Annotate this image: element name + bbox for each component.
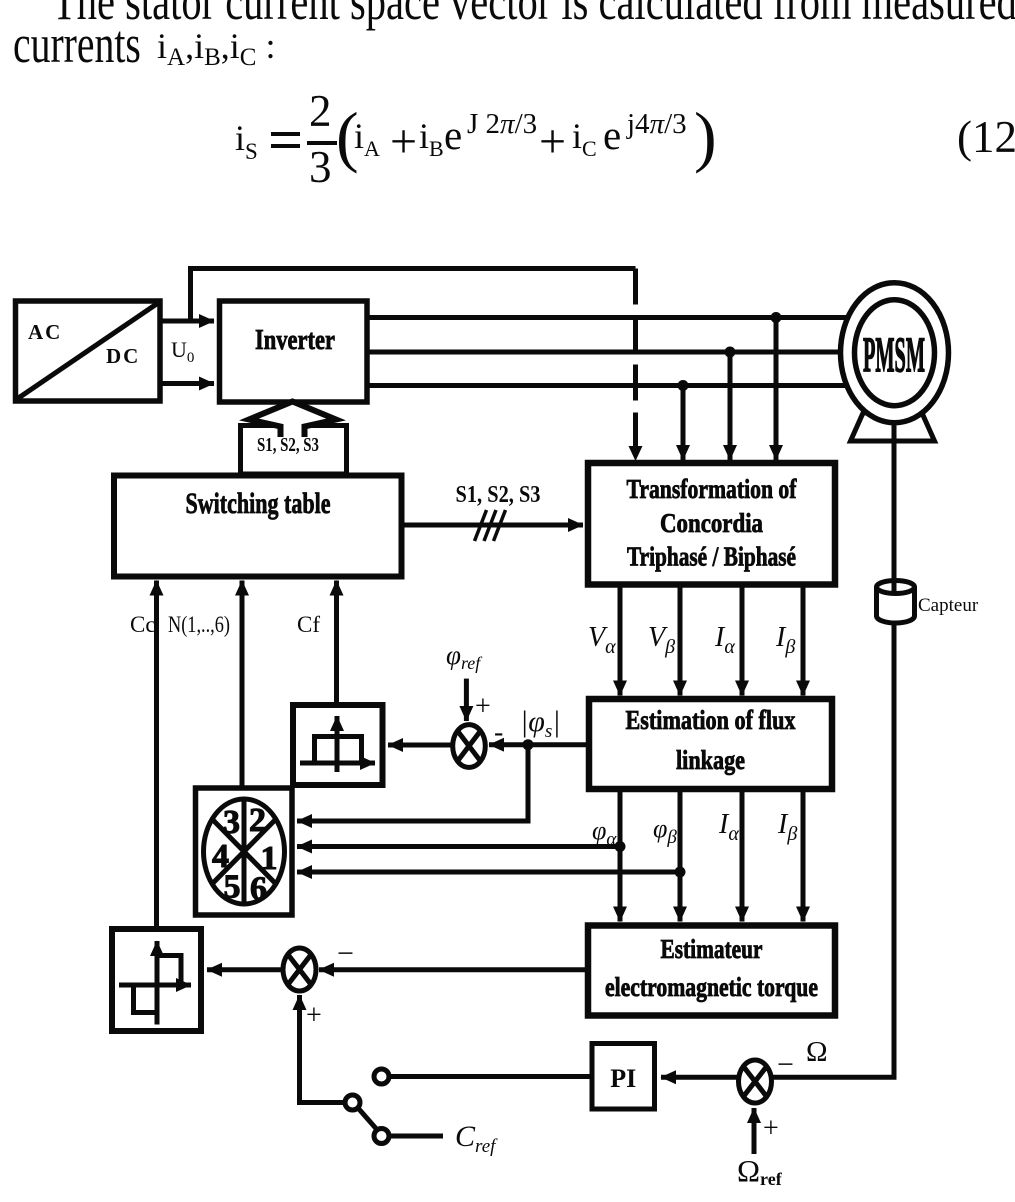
junction dot phase A	[771, 312, 782, 323]
term iB e^J2pi/3	[419, 118, 444, 160]
wire flux junction to flux hysteresis	[388, 743, 453, 748]
svg-text:φref: φref	[446, 640, 483, 673]
flux hysteresis h axis	[300, 761, 375, 766]
svg-text:Cf: Cf	[297, 612, 320, 637]
block sector selector	[196, 788, 293, 915]
motor outer ellipse	[841, 283, 949, 423]
wire speed junction to PI	[661, 1075, 739, 1080]
svg-text:|φs|: |φs|	[520, 705, 561, 742]
term iA	[354, 118, 380, 160]
svg-text:−: −	[777, 1048, 794, 1081]
drop wire phibeta	[678, 789, 683, 922]
svg-text:Triphasé / Biphasé: Triphasé / Biphasé	[627, 542, 796, 572]
wire PI output to switch	[390, 1074, 593, 1079]
svg-text:PMSM: PMSM	[863, 326, 925, 382]
svg-text:Ωref: Ωref	[737, 1153, 783, 1189]
drop wire Ibeta2	[801, 789, 806, 922]
svg-text:PI: PI	[610, 1064, 636, 1093]
wire Omega ref up into speed junction	[752, 1108, 757, 1154]
sector selector diagonal 2	[212, 819, 276, 884]
svg-text:Iα: Iα	[718, 809, 739, 845]
wire phiref down into flux junction	[464, 679, 469, 721]
wire flux branch to sector selector	[297, 745, 528, 821]
svg-text:Estimateur: Estimateur	[661, 934, 763, 964]
equation term iS	[235, 120, 258, 163]
motor base	[851, 413, 935, 441]
svg-text:φα: φα	[592, 816, 617, 850]
fraction 2/3 numerator	[309, 89, 332, 134]
drop wire Ialpha	[740, 585, 745, 696]
flux hysteresis loop	[315, 737, 362, 764]
inline math iA iB iC	[157, 28, 276, 70]
fraction bar	[307, 141, 337, 145]
motor inner ellipse	[855, 300, 935, 406]
block torque hysteresis comparator	[112, 929, 201, 1031]
block Estimateur torque	[588, 926, 835, 1016]
sector selector ellipse	[204, 799, 285, 904]
paragraph line 1 (cut off at top)	[52, 0, 1015, 28]
svg-text:Vβ: Vβ	[648, 622, 675, 658]
big left paren	[336, 102, 359, 170]
torque hysteresis v axis	[155, 941, 160, 1025]
wire Cc up to switching table	[154, 581, 159, 930]
wire summing junction to torque hysteresis	[207, 967, 283, 972]
sector selector diagonal 1	[212, 819, 276, 884]
capteur cylinder body	[877, 587, 915, 623]
block Inverter	[220, 301, 368, 402]
speed summing junction	[739, 1060, 772, 1103]
drop wire Ic to Concordia	[681, 386, 686, 461]
drop wire Ialpha2	[740, 789, 745, 922]
svg-text:6: 6	[250, 871, 267, 908]
svg-text:+: +	[475, 691, 491, 722]
drop wire Ibeta	[801, 585, 806, 696]
slash marks ///	[475, 510, 487, 541]
svg-text:Estimation of flux: Estimation of flux	[626, 705, 796, 735]
big right paren	[694, 102, 717, 170]
plus	[539, 118, 566, 166]
wire torque to summing junction	[319, 967, 588, 972]
wire U0 bottom	[160, 381, 214, 386]
wire up into torque junction from switch	[300, 995, 345, 1103]
shaft stub through capteur top	[892, 578, 897, 591]
svg-text:S1, S2, S3: S1, S2, S3	[257, 434, 319, 456]
wire phase A	[367, 315, 851, 320]
block-arrow S1,S2,S3 into inverter : arrow	[249, 402, 336, 438]
torque hysteresis h axis	[119, 983, 191, 988]
svg-text:electromagnetic torque: electromagnetic torque	[605, 972, 818, 1002]
drop wire Valpha	[618, 585, 623, 696]
svg-text:Vα: Vα	[588, 622, 616, 658]
svg-text:Iα: Iα	[714, 622, 735, 658]
term iC e^j4pi/3	[572, 118, 597, 160]
torque summing junction	[283, 948, 316, 991]
switch upper contact	[374, 1069, 389, 1084]
svg-text:Switching table: Switching table	[186, 487, 331, 520]
wire N up to switching table	[240, 581, 245, 789]
block-arrow S1,S2,S3 into inverter : box	[241, 426, 347, 475]
drop wire Ia to Concordia	[774, 318, 779, 461]
svg-text:N(1,..,6): N(1,..,6)	[168, 612, 230, 637]
equation number (12	[957, 115, 1015, 160]
svg-text:Inverter: Inverter	[255, 325, 335, 356]
junction dot phase C	[678, 380, 689, 391]
svg-text:linkage: linkage	[676, 745, 745, 775]
junction dot phibeta	[675, 867, 686, 878]
block Estimation of flux linkage	[589, 699, 832, 789]
wire phibeta to sector selector	[297, 870, 680, 875]
svg-text:+: +	[306, 1000, 322, 1031]
svg-text:Concordia: Concordia	[660, 508, 763, 538]
paragraph line 2	[13, 17, 141, 71]
drop wire Ib to Concordia	[728, 352, 733, 460]
wire phase B	[367, 350, 845, 355]
drop wire phialpha	[618, 789, 623, 922]
block flux hysteresis comparator	[293, 705, 383, 785]
svg-text:5: 5	[224, 869, 241, 906]
svg-text:+: +	[763, 1113, 779, 1144]
wire phase C	[367, 383, 851, 388]
svg-text:U0: U0	[171, 337, 194, 366]
torque hysteresis lower loop	[134, 985, 158, 1013]
switch blade	[358, 1108, 376, 1129]
wire Cref	[390, 1134, 444, 1139]
svg-text:Iβ: Iβ	[777, 809, 797, 845]
motor shaft / speed feedback wire	[772, 415, 895, 1077]
switch pole contact	[345, 1095, 360, 1110]
block Transformation of Concordia	[588, 463, 835, 585]
svg-text:DC: DC	[106, 344, 140, 368]
svg-text:3: 3	[223, 804, 240, 841]
dashed drop wire to Concordia	[633, 269, 638, 447]
svg-text:2: 2	[249, 802, 266, 839]
wire flux magnitude to summing junction	[489, 742, 589, 747]
svg-text:-: -	[494, 717, 503, 748]
svg-text:Iβ: Iβ	[775, 622, 795, 658]
switch lower contact	[374, 1129, 389, 1144]
capteur cylinder top	[877, 581, 915, 594]
fraction denominator	[309, 145, 332, 190]
svg-text:S1, S2, S3: S1, S2, S3	[456, 482, 541, 508]
arrowhead of dashed wire	[629, 446, 643, 461]
wire phialpha to sector selector	[297, 844, 620, 849]
wire DC-bus feedback to top	[191, 269, 636, 322]
svg-text:AC: AC	[28, 320, 62, 344]
svg-text:Transformation of: Transformation of	[627, 474, 798, 504]
wire Cf up to switching table	[334, 581, 339, 705]
svg-text:Ω: Ω	[806, 1036, 828, 1068]
drop wire Vbeta	[678, 585, 683, 696]
flux hysteresis v axis	[335, 716, 340, 772]
equals sign	[271, 132, 300, 136]
block AC/DC rectifier	[16, 301, 161, 401]
svg-text:Cref: Cref	[455, 1120, 498, 1157]
junction dot phialpha	[615, 841, 626, 852]
junction dot phase B	[725, 347, 736, 358]
svg-text:−: −	[337, 937, 354, 970]
block Switching table	[114, 476, 402, 577]
block PI	[592, 1044, 655, 1110]
plus	[390, 118, 417, 166]
flux summing junction	[453, 725, 486, 768]
svg-text:Capteur: Capteur	[918, 595, 979, 616]
sector selector vertical divider	[242, 799, 247, 904]
wire Switching table to Concordia	[402, 523, 584, 528]
svg-text:Cc: Cc	[130, 612, 156, 637]
svg-text:φβ: φβ	[653, 814, 677, 848]
torque hysteresis upper loop	[157, 956, 181, 986]
wire U0 top	[160, 319, 214, 324]
junction dot flux magnitude	[523, 739, 534, 750]
